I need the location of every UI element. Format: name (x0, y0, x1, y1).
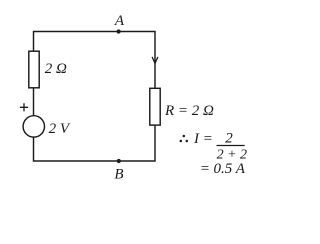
svg-text:2 Ω: 2 Ω (45, 61, 67, 77)
polarity plus sign (20, 103, 28, 111)
result = 0.5 A (200, 161, 246, 177)
resistor R (right) (150, 88, 160, 125)
voltage source V1 (23, 116, 44, 137)
node A label (114, 13, 125, 29)
current direction arrow (152, 57, 158, 64)
wire bottom (B) with lower side segments (34, 125, 156, 161)
node B (117, 159, 121, 163)
node B label (114, 167, 123, 183)
fraction denominator 2 + 2 (217, 147, 247, 162)
equation I = (193, 131, 213, 147)
resistor R value label R = 2 Ω (164, 103, 214, 119)
fraction numerator 2 (225, 131, 233, 147)
svg-text:I =: I = (193, 131, 213, 147)
wire top (A to corners) (34, 32, 156, 89)
svg-text:R = 2 Ω: R = 2 Ω (164, 103, 214, 119)
svg-text:= 0.5 A: = 0.5 A (200, 161, 246, 177)
wire left middle segment (33, 88, 35, 116)
fraction bar (217, 145, 245, 147)
voltage source value label 2 V (49, 121, 71, 137)
svg-text:2: 2 (225, 131, 233, 147)
svg-text:B: B (114, 167, 123, 183)
therefore symbol dots (180, 135, 189, 143)
resistor value label 2 Ω (45, 61, 67, 77)
svg-text:2 V: 2 V (49, 121, 71, 137)
svg-text:A: A (114, 13, 125, 29)
node A (117, 29, 121, 33)
resistor 2 Ω (left) (29, 51, 39, 88)
